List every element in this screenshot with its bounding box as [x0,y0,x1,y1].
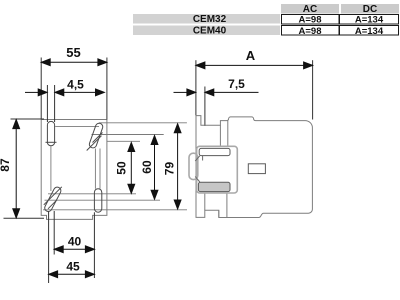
construction line 60 bottom extension [45,199,161,201]
table cell CEM40 AC value [282,26,340,37]
svg-text:A=134: A=134 [355,26,384,37]
din clip spring detail top [202,149,204,161]
dim 79 line with arrows [174,124,181,209]
dim A extension lines [195,60,197,115]
dim 60 line with arrows [151,136,158,200]
table row label CEM32 [133,14,280,25]
dim 4,5 arrows and leader [25,89,104,96]
din clip spring detail bottom [195,177,200,183]
construction line 60 top extension [92,134,164,136]
slot bottom-right [94,189,101,213]
dim 7,5 extension line [204,87,206,127]
svg-text:CEM40: CEM40 [193,26,227,37]
svg-text:4,5: 4,5 [67,78,84,92]
construction line 50 bottom extension [48,193,136,195]
table cell CEM40 DC value [340,26,399,37]
svg-text:A: A [246,48,256,63]
table cell CEM32 AC value [282,14,340,25]
dim 87 extension lines [11,118,45,120]
svg-text:50: 50 [115,161,129,175]
construction line 50 top extension [107,140,140,142]
construction line top long (79 top extension) [99,122,187,124]
construction line 79 bottom extension [43,209,187,211]
table header cell DC [341,4,399,15]
svg-text:87: 87 [0,158,12,172]
svg-text:40: 40 [68,235,82,249]
din clip big rounded rect [197,146,238,193]
dim 50 line with arrows [128,143,135,194]
svg-text:A=98: A=98 [299,26,322,37]
din clip bottom bar [198,182,230,191]
slot top-left [46,121,57,145]
construction line upper slots [55,125,99,127]
front view body outline [41,120,107,220]
dim 87 line with arrows [13,120,20,218]
svg-text:A=134: A=134 [355,14,384,25]
svg-text:45: 45 [66,260,80,274]
slot top-left centerline down to bottom-left slot [50,146,52,191]
dim 40 line with arrows [54,246,94,253]
dim 45 extension line left [48,212,50,284]
dim 40 extension lines [53,211,55,255]
right slots connection lines [94,149,96,189]
svg-text:79: 79 [163,162,177,176]
svg-text:CEM32: CEM32 [193,14,227,25]
dim 55 extension lines [40,58,42,120]
svg-text:60: 60 [140,160,154,174]
svg-text:55: 55 [66,45,80,60]
dim 55 line with arrows [41,59,107,66]
slot bottom-left (tilted) [44,187,62,212]
table cell CEM32 DC value [340,14,399,25]
dim 45 line with arrows [49,271,95,278]
svg-text:A=98: A=98 [299,14,322,25]
side view profile [196,116,312,218]
svg-text:7,5: 7,5 [228,77,245,91]
din clip top bar [199,148,230,155]
dim 4,5 extension lines [46,85,48,122]
din clip hook capsule [189,153,198,179]
side view label rectangle [248,164,265,174]
dim 7,5 arrows and leader [174,89,259,96]
dim A line with arrows [196,62,313,69]
slot top-right (tilted) [87,123,103,150]
table row label CEM40 [133,26,280,37]
table header cell AC [281,4,339,15]
